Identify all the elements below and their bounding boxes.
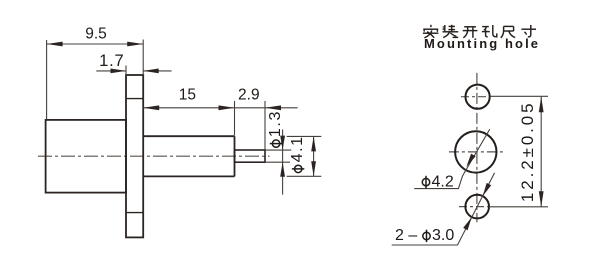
svg-text:1.7: 1.7: [99, 52, 124, 70]
dim 2.9 arrow: [265, 105, 281, 110]
dim phi4.1 line: [313, 136, 315, 176]
char an: [423, 25, 439, 38]
char kai: [463, 27, 478, 38]
flange hole tick top: [126, 98, 143, 100]
flange: [126, 75, 143, 237]
dim 12.2 label: [518, 100, 537, 202]
svg-text:Mounting hole: Mounting hole: [424, 36, 540, 51]
centerline left view: [38, 155, 270, 157]
svg-text:2 –: 2 –: [395, 227, 417, 244]
svg-text:4.1: 4.1: [289, 135, 306, 162]
dim 9.5 line: [47, 43, 144, 45]
dim phi1.3 label: [267, 110, 284, 147]
dim 9.5 extension lines: [47, 40, 144, 120]
top hole horizontal centerline: [461, 96, 491, 98]
title chinese: 安装开孔尺寸: [423, 25, 536, 38]
dim 1.7 line and arrows: [96, 70, 171, 72]
svg-text:2.9: 2.9: [238, 86, 260, 103]
connector body block: [46, 120, 126, 193]
char kong: [482, 25, 497, 37]
bottom hole circle: [465, 195, 489, 219]
dim 15 / 2.9 extension lines: [235, 101, 266, 150]
dim 12.2 arrows: [539, 97, 544, 207]
dim 1.7 extension line: [125, 66, 127, 76]
dim phi1.3 arrows: [280, 136, 285, 177]
barrel: [143, 136, 234, 176]
svg-text:3.0: 3.0: [432, 227, 454, 244]
flange hole tick bottom: [126, 212, 143, 214]
dim 9.5 arrows: [47, 42, 144, 47]
dim phi1.3 extension lines: [265, 150, 291, 162]
svg-text:4.2: 4.2: [432, 173, 454, 190]
dim phi4.1 extension lines: [287, 136, 322, 176]
vertical centerline hole pattern: [476, 73, 478, 222]
dim phi4.1 arrows: [311, 136, 316, 176]
svg-text:15: 15: [179, 86, 196, 103]
dim 15 arrows: [143, 105, 234, 110]
2-phi3.0 leader: [392, 173, 495, 245]
svg-text:1.3: 1.3: [267, 110, 284, 137]
bottom hole horizontal centerline: [459, 206, 489, 208]
phi4.2 leader: [414, 129, 490, 189]
phi4.2 label: [422, 173, 454, 190]
center pin: [235, 150, 266, 162]
top hole circle: [466, 85, 490, 109]
dim phi1.3 line: [282, 130, 284, 195]
char chi: [501, 26, 515, 37]
2-phi3.0 arrows: [463, 183, 491, 230]
dim 15 / 2.9 line: [143, 107, 298, 109]
bottom leader line: [489, 206, 548, 208]
phi4.2 arrow: [466, 154, 475, 167]
char zhuang: [443, 25, 459, 38]
dim 12.2 line: [540, 97, 542, 207]
svg-text:9.5: 9.5: [85, 26, 107, 43]
dim phi4.1 label: [289, 135, 306, 172]
svg-text:12.2±0.05: 12.2±0.05: [518, 100, 537, 202]
top leader line: [491, 95, 549, 97]
middle hole horizontal centerline: [449, 151, 503, 153]
char cun: [521, 25, 536, 37]
middle hole circle phi4.2: [455, 131, 496, 172]
2-phi3.0 label: [395, 227, 454, 244]
